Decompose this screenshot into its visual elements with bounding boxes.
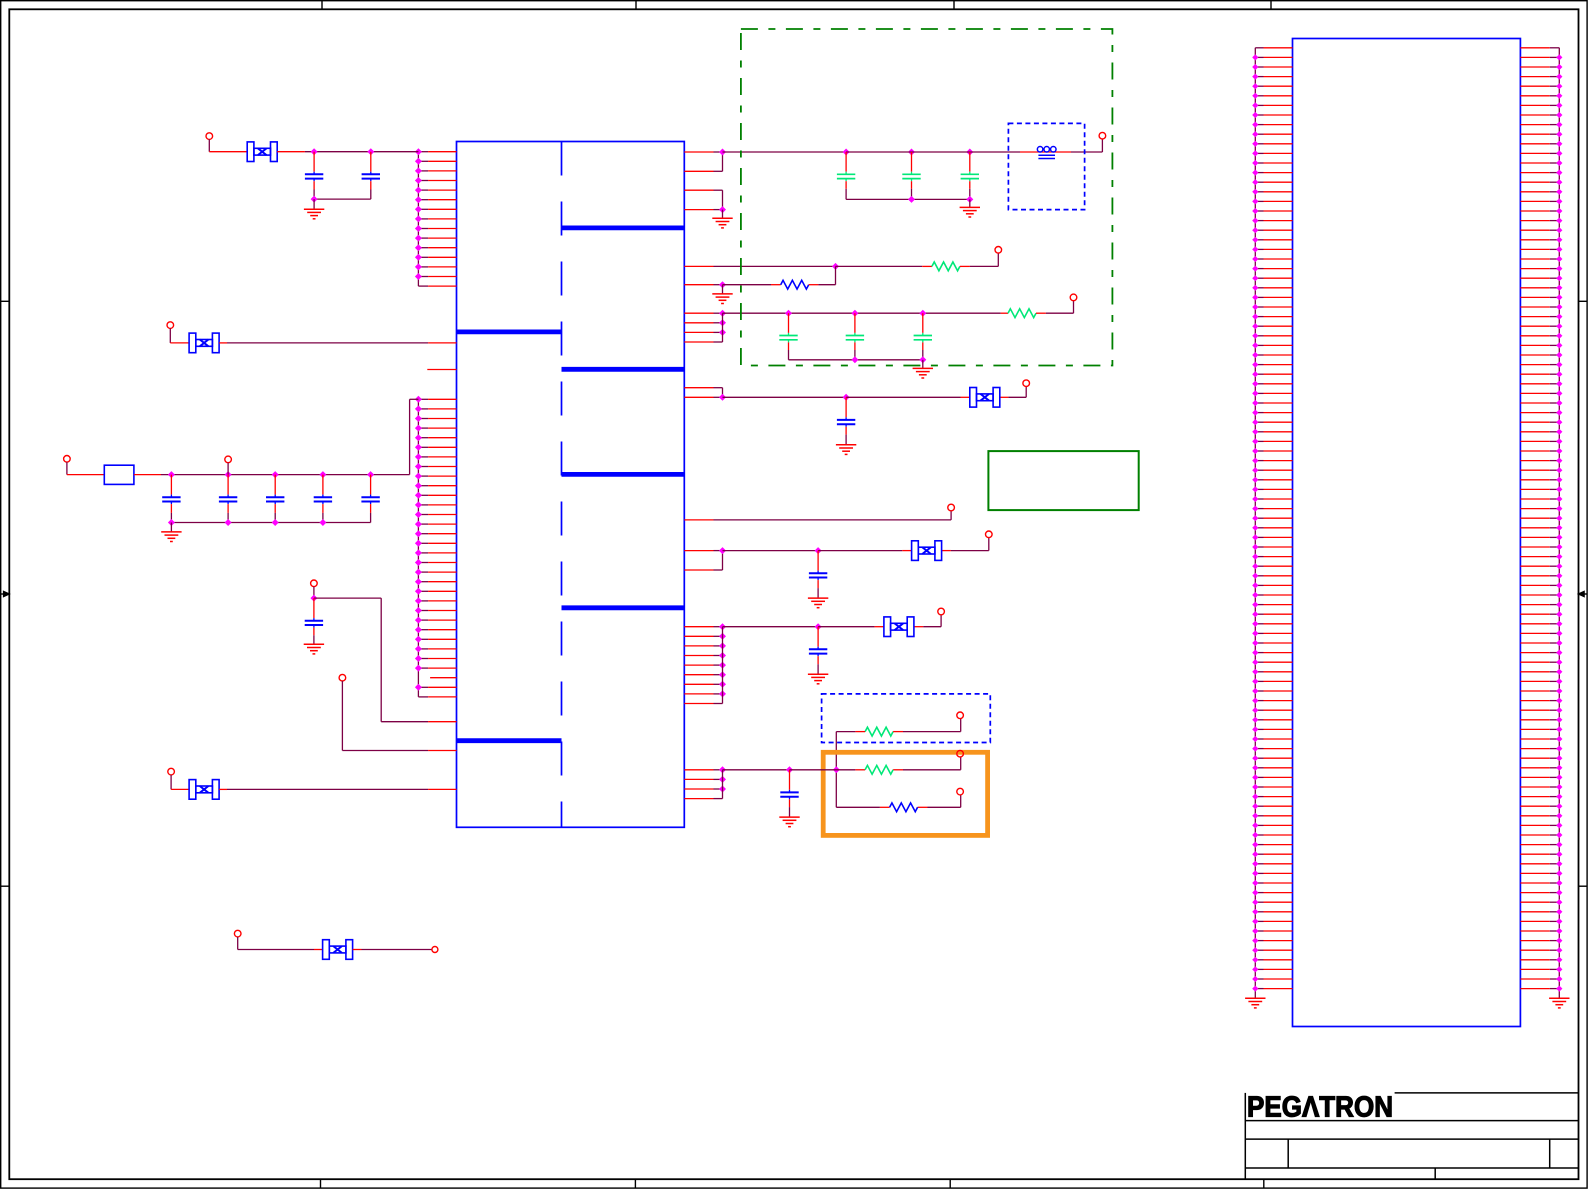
wire P6 to U1 <box>342 681 456 751</box>
wire R1 to P11 <box>960 253 998 266</box>
port P1 <box>206 133 213 140</box>
U1 right pins r10 loop <box>684 547 726 570</box>
connector J1 left pin stubs and bus <box>1252 48 1292 998</box>
capacitor C17 (green) <box>779 313 797 360</box>
U1 right pin r9 net to P14 <box>684 511 951 520</box>
capacitor C16 (green) <box>961 152 979 199</box>
capacitor C11 <box>809 627 827 674</box>
port P6 <box>339 674 346 681</box>
ground GND11 <box>808 674 828 684</box>
port P13 <box>1023 380 1030 387</box>
resistor R3 (green) <box>865 727 893 736</box>
wire P2 to FB2 <box>170 328 189 343</box>
port P4 <box>225 456 232 463</box>
U1 right pin r1 and r2 loop <box>684 149 726 172</box>
ground GND10 <box>808 598 828 608</box>
resistor R6 (blue) <box>890 803 918 812</box>
capacitor C19 (green) <box>914 313 932 360</box>
wire green cap bank2 bottom <box>789 356 927 368</box>
capacitor C7 <box>361 475 379 523</box>
U1 right pin r5 net <box>684 263 932 270</box>
ground GND7 <box>960 207 980 217</box>
port P18 <box>957 750 964 757</box>
ground GND9 <box>836 445 856 455</box>
capacitor C14 (green) <box>837 152 855 199</box>
ground GND5 <box>712 218 732 228</box>
capacitor C3 <box>162 475 180 523</box>
wire r11 net to FB4 and P16 <box>723 615 942 630</box>
note box (green outline) <box>988 451 1138 510</box>
capacitor C10 <box>809 551 827 598</box>
U1 right pins r8 loop <box>684 388 726 401</box>
ferrite bead FB4 <box>884 617 914 637</box>
port P3 <box>64 456 71 463</box>
capacitor C2 <box>362 152 380 199</box>
U1 pin stub (no-connect) <box>427 369 456 371</box>
wire r10 net to FB3 and P15 <box>723 538 989 555</box>
wire R3 net riser and P17 <box>833 719 961 808</box>
capacitor C18 (green) <box>846 313 864 360</box>
highlight box (orange) around R4 and R6 <box>823 752 987 835</box>
resistor R1 (green) <box>932 262 960 271</box>
capacitor C12 <box>780 770 798 817</box>
wire P7 to FB6 <box>171 775 189 790</box>
capacitor C4 <box>219 475 237 523</box>
ground GND2 <box>161 532 181 542</box>
capacitor C6 <box>314 475 332 523</box>
U1 left pin group A bus and pin stubs <box>415 148 457 286</box>
fuse F1 (box component) <box>104 465 134 484</box>
ground GND3 <box>304 644 324 654</box>
wire r14 net to R4 and P18 <box>723 757 961 773</box>
wire F1 to U1 group B riser <box>134 399 419 478</box>
U1 right pin r6 net <box>684 281 780 293</box>
U1 right pin group r11 bus <box>684 623 726 703</box>
wire P3 to F1 <box>67 462 104 475</box>
connector J1 <box>1293 39 1521 1027</box>
section outline box (blue dashed) around L1 <box>1008 123 1084 209</box>
ferrite bead FB2 <box>189 333 219 353</box>
port P15 <box>986 531 993 538</box>
connector J1 right pin stubs and bus <box>1520 48 1562 998</box>
port P19 <box>957 788 964 795</box>
wire R6 net <box>836 795 960 807</box>
U1 right pin group r7 bus <box>684 310 726 342</box>
ferrite bead FB6 <box>189 780 219 800</box>
port P7 <box>168 768 175 775</box>
resistor R4 (green) <box>865 765 893 774</box>
wire P4 drop <box>227 463 229 475</box>
op-amp U1 main IC block <box>457 142 685 828</box>
capacitor C5 <box>266 475 284 523</box>
ferrite bead FB3 <box>912 541 942 561</box>
wire P1 to FB1 <box>209 139 247 151</box>
resistor R2 (green) <box>1008 309 1036 318</box>
wire FB7 to P9 <box>353 949 432 951</box>
U1 right pin group r14 bus <box>684 766 726 798</box>
wire FB2 to U1 <box>219 342 456 344</box>
region outline box (green dash-dot) <box>741 29 1113 366</box>
port P12 <box>1070 294 1077 301</box>
capacitor C8 <box>305 598 323 644</box>
capacitor C9 <box>837 397 855 444</box>
capacitor C15 (green) <box>902 152 920 199</box>
ground GND6 <box>712 294 732 304</box>
port P2 <box>167 322 174 329</box>
ground GND1 <box>304 209 324 219</box>
ferrite bead FB5 <box>970 388 1000 408</box>
ferrite bead FB7 <box>323 940 353 960</box>
wire r7 net to cap bank2 and R2 <box>723 310 1009 317</box>
wire FB1 to U1 pin bus <box>277 148 418 155</box>
wire R2 to P12 <box>1036 301 1074 314</box>
port P17 <box>957 712 964 719</box>
ground GND14 <box>1549 998 1569 1008</box>
U1 right pins r3 r4 to ground <box>684 190 726 218</box>
wire FB6 to U1 <box>219 788 456 790</box>
port P10 <box>1099 132 1106 139</box>
ground GND12 <box>779 817 799 827</box>
ground GND13 <box>1245 998 1265 1008</box>
wire P5 to U1 <box>310 587 456 722</box>
port P11 <box>995 247 1002 254</box>
port P14 <box>948 504 955 511</box>
capacitor C1 <box>305 152 323 199</box>
wire r8 net to FB5 and P13 <box>723 387 1027 401</box>
port P8 <box>234 930 241 937</box>
wire P8 to FB7 <box>238 937 323 950</box>
wire C1/C2 bottom junction <box>311 196 371 209</box>
ferrite bead FB1 <box>247 142 277 162</box>
section outline box (blue dashed) around R3 <box>822 694 991 743</box>
svg-text:PEGΛTRON: PEGΛTRON <box>1247 1092 1393 1124</box>
resistor R5 (blue) <box>781 280 809 289</box>
port P16 <box>938 608 945 615</box>
wire green cap bank1 bottom <box>846 196 973 207</box>
inductor L1 <box>1037 147 1056 159</box>
wire net VCC row to inductor and P10 <box>723 139 1103 156</box>
port P9 <box>432 947 438 953</box>
U1 left pin group B bus and pin stubs <box>415 396 457 697</box>
wire capacitor bank bottom bus <box>168 519 371 532</box>
port P5 <box>311 580 318 587</box>
ground GND8 <box>913 368 933 378</box>
wire R5 to r5 net <box>809 266 836 284</box>
